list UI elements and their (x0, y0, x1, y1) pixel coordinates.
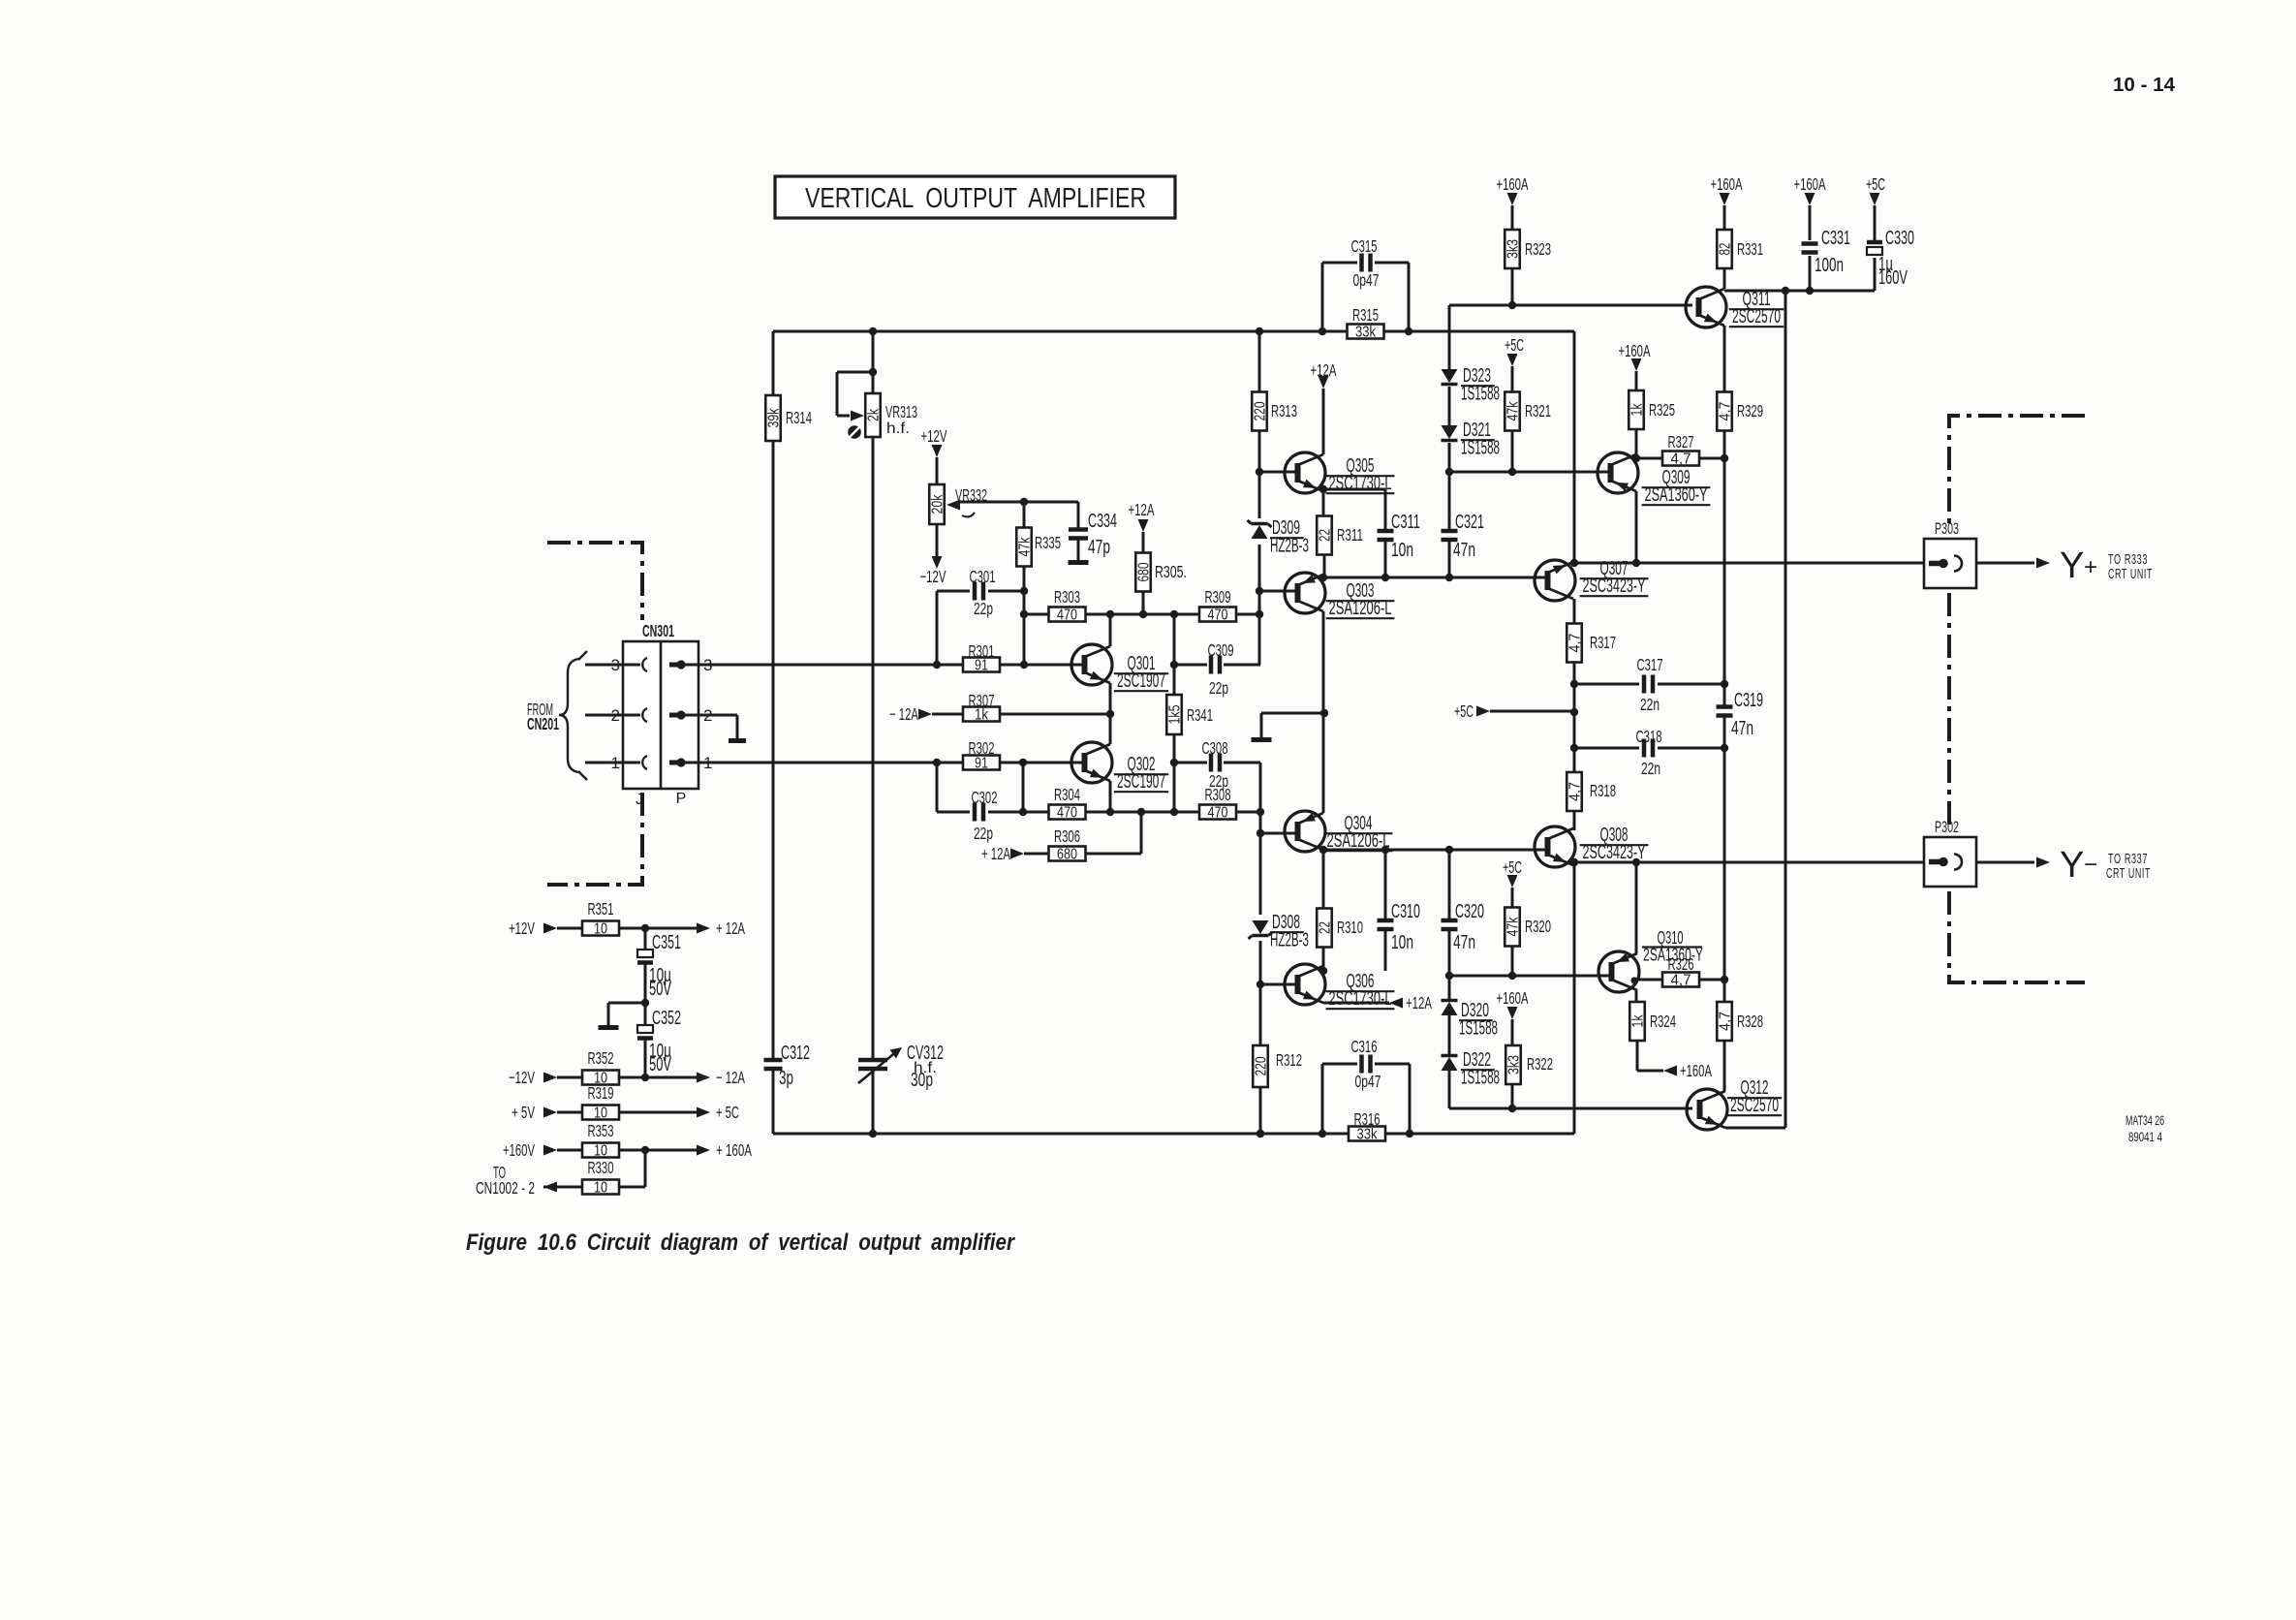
svg-text:2k: 2k (866, 409, 883, 421)
wire R310 to Q306 (1322, 948, 1325, 971)
node R325/R327 (1632, 454, 1640, 462)
wire VR313 column (872, 331, 875, 1134)
node R335/R303 (1020, 610, 1028, 618)
capacitor C315 (1362, 254, 1371, 272)
capacitor C352 (637, 1025, 653, 1039)
CV312 labels (907, 1043, 944, 1091)
node Q301 collector (1106, 610, 1114, 618)
C319 labels (1731, 690, 1763, 739)
wire bottom bus (773, 1133, 1574, 1136)
svg-text:47k: 47k (1505, 917, 1522, 936)
svg-text:+160A: +160A (1711, 174, 1743, 194)
board boundary dash-dot left (547, 543, 642, 885)
Q305 labels (1326, 455, 1395, 494)
transistor Q312 (1687, 1089, 1727, 1130)
node Q306 collector (1319, 967, 1327, 975)
TO R333 CRT UNIT (2108, 551, 2153, 582)
svg-text:2SC3423-Y: 2SC3423-Y (1583, 576, 1646, 597)
wire CN301 pin2 stub left (585, 714, 623, 717)
wire base link Q302 (1022, 763, 1025, 812)
svg-text:680: 680 (1057, 847, 1077, 863)
C316 labels (1351, 1037, 1381, 1091)
svg-text:R324: R324 (1650, 1012, 1676, 1031)
wire C309 line (1174, 664, 1260, 667)
wire Q302 collector lead (1109, 781, 1112, 812)
svg-text:R321: R321 (1525, 401, 1551, 421)
wire C311 branch (1384, 489, 1387, 577)
wire input pin3 line (684, 664, 1085, 667)
capacitor C319 (1717, 707, 1733, 716)
CN301 P plug pin 1 (669, 761, 678, 765)
svg-text:+160A: +160A (1794, 174, 1826, 194)
resistor R302 (963, 738, 1000, 772)
wire feedback column to Y+ (1573, 331, 1576, 563)
svg-text:R312: R312 (1276, 1050, 1302, 1070)
wire input pin1 line (684, 762, 1085, 764)
resistor R351 (582, 899, 619, 938)
wire Q312 emitter to rail (1725, 1127, 1785, 1130)
resistor R315 (1348, 305, 1384, 341)
wire C308 line (1174, 762, 1260, 764)
resistor R304 (1049, 785, 1086, 822)
connector P302 (1924, 837, 1976, 887)
wire R318 to Q308 (1573, 810, 1576, 830)
svg-text:+ 160A: + 160A (716, 1140, 752, 1160)
svg-text:82: 82 (1718, 243, 1734, 256)
svg-text:47n: 47n (1453, 540, 1475, 561)
D309 labels (1270, 517, 1309, 557)
Q304 labels (1324, 813, 1393, 852)
svg-text:R315: R315 (1352, 305, 1379, 325)
resistor R318 (1567, 772, 1616, 811)
C320 labels (1453, 901, 1484, 953)
node top bus / R313 (1256, 327, 1263, 335)
Q306 labels (1326, 971, 1395, 1010)
resistor R303 (1049, 587, 1086, 624)
svg-text:10n: 10n (1391, 540, 1413, 561)
capacitor C334 (1069, 530, 1088, 539)
svg-text:R314: R314 (786, 408, 812, 427)
svg-text:− 12A: − 12A (716, 1068, 745, 1087)
capacitor C330 (1867, 242, 1882, 255)
svg-text:CN1002 - 2: CN1002 - 2 (476, 1178, 535, 1198)
transistor Q311 (1686, 287, 1726, 327)
svg-text:10 - 14: 10 - 14 (2113, 75, 2176, 96)
node R335/C301 (1020, 587, 1028, 595)
wire Q303 line to Q307 base (1323, 576, 1548, 579)
brace from CN201 (559, 659, 578, 772)
svg-text:+160A: +160A (1497, 988, 1529, 1008)
resistor R311 (1317, 516, 1363, 555)
svg-text:R302: R302 (969, 738, 995, 758)
resistor R322 (1505, 1045, 1553, 1084)
svg-text:R335: R335 (1035, 533, 1061, 552)
capacitor C308 (1211, 754, 1220, 772)
svg-text:P303: P303 (1935, 520, 1959, 538)
svg-text:470: 470 (1057, 805, 1077, 822)
node C301 riser / input (933, 661, 941, 669)
svg-text:−12V: −12V (509, 1068, 535, 1087)
svg-text:C351: C351 (652, 932, 681, 953)
resistor R325 (1629, 390, 1675, 429)
transistor Q303 (1285, 573, 1325, 613)
wire R327 line (1636, 457, 1724, 460)
svg-text:CRT UNIT: CRT UNIT (2108, 566, 2153, 582)
wire R324 to +160A (1637, 1041, 1663, 1071)
svg-text:91: 91 (975, 756, 988, 772)
wire +12V to VR332 (936, 457, 939, 484)
Q306 emitter arrow (1303, 991, 1316, 1000)
svg-text:47n: 47n (1731, 718, 1753, 739)
wire R317-R318 column (1573, 662, 1576, 773)
svg-text:R323: R323 (1525, 239, 1551, 259)
CN301 J contact pin 2 (642, 708, 647, 722)
+12A feed at R306 (981, 844, 1024, 863)
wire Q311 base line (1449, 304, 1692, 307)
svg-text:22p: 22p (974, 824, 993, 843)
C309 labels (1208, 640, 1234, 698)
capacitor C351 (637, 950, 653, 963)
+160A tag at R331 (1711, 174, 1743, 205)
resistor R323 (1505, 230, 1551, 268)
wire diode column bottom (1448, 850, 1451, 1108)
wire Q311 emitter to R329 (1723, 326, 1726, 392)
capacitor C301 (975, 582, 983, 601)
svg-text:0p47: 0p47 (1355, 1072, 1381, 1091)
resistor R353 (582, 1121, 619, 1160)
C331 labels (1815, 228, 1850, 276)
svg-text:+12A: +12A (1129, 500, 1155, 519)
wire lower bias column (1259, 763, 1262, 1134)
wire Q303-Q304 link (1322, 611, 1325, 813)
wire Q307 emitter to R317 (1573, 599, 1576, 624)
svg-text:10n: 10n (1391, 932, 1413, 953)
svg-text:2SC1730-L: 2SC1730-L (1329, 988, 1392, 1010)
diode D322 (1442, 1056, 1458, 1072)
node R341/C308 (1170, 759, 1178, 766)
Y- label (2060, 845, 2097, 886)
resistor R321 (1505, 392, 1551, 431)
node Q306 base (1257, 981, 1264, 988)
svg-text:C352: C352 (652, 1008, 681, 1029)
resistor R329 (1717, 392, 1763, 431)
svg-text:R325: R325 (1649, 400, 1675, 420)
Q302 labels (1114, 754, 1168, 793)
ground at CN301 pin2 (729, 738, 746, 743)
node Q305 emitter (1319, 485, 1327, 493)
wire Q312 base line (1449, 1107, 1692, 1110)
svg-text:C321: C321 (1455, 512, 1484, 533)
node Y+ / Q309 emitter (1632, 559, 1640, 567)
node Y- / feedback column (1570, 858, 1578, 866)
node C310 top (1381, 846, 1389, 854)
C312 labels (779, 1043, 810, 1089)
svg-text:3k3: 3k3 (1506, 1055, 1523, 1075)
svg-text:2SC2570: 2SC2570 (1732, 306, 1781, 327)
node Q304 base (1257, 829, 1264, 837)
node R309 right (1256, 610, 1263, 618)
transistor Q307 (1535, 560, 1575, 601)
svg-text:R352: R352 (588, 1048, 614, 1068)
ground at C352 (599, 1025, 619, 1030)
svg-text:R353: R353 (588, 1121, 614, 1140)
R330 arrow out (543, 1182, 557, 1193)
+5C feed mid (1454, 701, 1490, 721)
wire ground branch C35x (608, 1003, 645, 1025)
+5C tag at R320 (1503, 857, 1522, 888)
node R311 bottom (1319, 574, 1327, 581)
svg-text:C319: C319 (1734, 690, 1763, 711)
node C320/R320 line (1445, 972, 1453, 980)
node +160A / R330 (641, 1146, 649, 1154)
svg-text:470: 470 (1208, 805, 1228, 822)
svg-text:P302: P302 (1935, 819, 1959, 836)
svg-text:1S1588: 1S1588 (1461, 384, 1500, 405)
svg-text:+160V: +160V (503, 1140, 535, 1160)
+160A tag at R323 (1497, 174, 1529, 205)
resistor R324 (1629, 1002, 1676, 1041)
C302 labels (972, 788, 998, 843)
wire R311 to line (1323, 554, 1326, 577)
svg-text:R327: R327 (1668, 432, 1694, 452)
node Q302 collector line (1106, 808, 1114, 816)
diode D320 (1442, 1001, 1458, 1016)
wire C334 branch (1077, 502, 1080, 560)
CN301 J contact pin 3 (642, 658, 647, 671)
resistor R310 (1317, 909, 1363, 948)
node R306 riser (1137, 808, 1145, 816)
screwdriver adjust mark (848, 425, 861, 439)
resistor R328 (1717, 1002, 1763, 1041)
svg-text:CN301: CN301 (642, 621, 674, 640)
+12V tag at VR332 (921, 426, 947, 457)
wire CN301 pin3 stub left (585, 664, 623, 667)
node C318 left (1570, 744, 1578, 752)
svg-text:22: 22 (1318, 529, 1334, 542)
node C320 top (1445, 846, 1453, 854)
svg-text:22p: 22p (974, 599, 993, 618)
svg-text:+160A: +160A (1680, 1061, 1712, 1080)
wire +12A to Q305 collector (1322, 389, 1325, 454)
svg-text:680: 680 (1136, 562, 1153, 581)
transistor Q301 (1071, 644, 1112, 685)
svg-text:VERTICAL OUTPUT AMPLIFIER: VERTICAL OUTPUT AMPLIFIER (805, 183, 1146, 214)
svg-text:4,7: 4,7 (1718, 402, 1734, 421)
trimmer CV312 (858, 1060, 887, 1069)
CN301 P plug pin 3 (669, 663, 678, 668)
Y- arrow (2036, 857, 2050, 868)
wire VR332 wiper line (960, 501, 1078, 504)
Y+ arrow (2036, 558, 2050, 569)
D308 labels (1270, 912, 1309, 951)
svg-text:R331: R331 (1737, 239, 1763, 259)
+12A tag at Q305 (1311, 360, 1337, 389)
VR313 wiper arrow (851, 411, 864, 421)
node R335/base Q301 (1020, 661, 1028, 669)
C310 labels (1391, 901, 1420, 953)
svg-text:2SC2570: 2SC2570 (1730, 1095, 1779, 1116)
resistor R326 (1662, 954, 1699, 989)
svg-text:R303: R303 (1054, 587, 1080, 607)
+12A out at Q306 (1389, 993, 1432, 1012)
resistor R306 (1049, 826, 1086, 863)
connector P303 (1924, 539, 1976, 588)
wire R305 column (1142, 532, 1145, 614)
svg-text:+ 5V: + 5V (512, 1103, 535, 1122)
C317 labels (1637, 655, 1663, 714)
node Y+ / feedback column (1570, 559, 1578, 567)
wire Q309 base line (1449, 471, 1611, 474)
resistor R320 (1505, 908, 1551, 947)
node Q305 base (1256, 468, 1263, 476)
svg-text:R351: R351 (588, 899, 614, 919)
Q309 emitter arrow (1616, 483, 1629, 491)
C318 labels (1636, 727, 1662, 778)
svg-text:0p47: 0p47 (1353, 270, 1380, 290)
svg-text:HZ2B-3: HZ2B-3 (1270, 930, 1309, 951)
C311 labels (1391, 512, 1420, 561)
node -12A / C352 (641, 1074, 649, 1081)
wire R330 line (543, 1150, 645, 1187)
svg-text:R307: R307 (969, 691, 995, 710)
Q311 labels (1729, 289, 1784, 327)
svg-text:C302: C302 (972, 788, 998, 807)
svg-text:22n: 22n (1640, 695, 1660, 714)
node bus C316 right (1406, 1130, 1413, 1137)
node emitters/R307 (1106, 710, 1114, 718)
resistor R319 (582, 1083, 619, 1122)
Q312 emitter arrow (1705, 1116, 1718, 1125)
svg-text:C309: C309 (1208, 640, 1234, 660)
resistor R312 (1253, 1045, 1302, 1087)
svg-text:+12A: +12A (1406, 993, 1432, 1012)
node Y- / Q310 emitter (1632, 858, 1640, 866)
connector CN301 body (623, 621, 698, 808)
svg-text:CN201: CN201 (527, 714, 559, 733)
svg-text:J: J (636, 792, 643, 808)
svg-text:2SC1907: 2SC1907 (1117, 670, 1165, 692)
svg-text:Figure 10.6 Circuit diagram of: Figure 10.6 Circuit diagram of vertical … (466, 1230, 1015, 1256)
Q307 emitter arrow (1553, 565, 1566, 574)
wire R314 column (772, 331, 775, 1134)
node rail top (1782, 287, 1789, 295)
wire VR313 wiper tap (837, 372, 873, 416)
wire CN301 pin2 to ground (684, 715, 737, 738)
resistor R301 (963, 641, 1000, 674)
svg-text:R322: R322 (1527, 1054, 1553, 1074)
svg-text:h.f.: h.f. (886, 421, 910, 437)
node R341 top (1170, 610, 1178, 618)
node R341 bottom (1170, 808, 1178, 816)
capacitor C302 (975, 803, 983, 822)
node +12A / C351 (641, 924, 649, 932)
svg-text:3p: 3p (779, 1068, 793, 1089)
node R323 bottom (1508, 301, 1516, 309)
Q302 emitter arrow (1090, 769, 1102, 778)
wire Q309 emitter (1635, 491, 1638, 563)
zener diode D309 (1248, 520, 1272, 539)
svg-text:R330: R330 (588, 1158, 614, 1177)
svg-text:R317: R317 (1590, 633, 1616, 652)
wire R320 column (1511, 888, 1514, 976)
capacitor C311 (1378, 531, 1394, 540)
svg-text:R305.: R305. (1155, 562, 1187, 581)
node C302 riser / input (933, 759, 941, 766)
potentiometer VR313 (865, 393, 917, 437)
svg-text:4,7: 4,7 (1671, 452, 1691, 468)
svg-text:+12V: +12V (509, 919, 535, 938)
node top bus / C315 left (1319, 327, 1326, 335)
wire R335 column (1023, 502, 1026, 665)
wire Q309 collector (1635, 429, 1638, 454)
D323 labels (1461, 365, 1500, 405)
svg-text:+160A: +160A (1497, 174, 1529, 194)
svg-text:R341: R341 (1187, 705, 1213, 725)
svg-text:R301: R301 (969, 641, 995, 661)
svg-text:R319: R319 (588, 1083, 614, 1103)
svg-text:−: − (2084, 852, 2097, 878)
+160A tag at C331 (1794, 174, 1826, 205)
node R321 bottom (1508, 468, 1516, 476)
resistor R352 (582, 1048, 619, 1087)
Q312 labels (1727, 1077, 1782, 1116)
wire Q306 emitter to +12A (1323, 1002, 1389, 1005)
svg-text:−12V: −12V (920, 567, 946, 586)
svg-text:4,7: 4,7 (1567, 782, 1584, 801)
node C331 bottom (1806, 287, 1814, 295)
wire Y- line (1573, 861, 2034, 864)
resistor R317 (1567, 624, 1616, 663)
wire Q305 base (1259, 471, 1298, 474)
svg-text:C315: C315 (1351, 236, 1378, 256)
svg-text:HZ2B-3: HZ2B-3 (1270, 536, 1309, 557)
svg-text:30p: 30p (911, 1070, 933, 1091)
wire Q301 collector lead (1109, 614, 1112, 646)
diode D323 (1442, 369, 1458, 385)
capacitor C316 (1362, 1055, 1371, 1074)
node Q304 emitter line (1319, 846, 1327, 854)
svg-text:22p: 22p (1209, 771, 1228, 791)
svg-text:C334: C334 (1088, 511, 1117, 532)
wire Q310 emitter (1635, 862, 1638, 953)
C315 labels (1351, 236, 1380, 290)
wire C316 loop (1322, 1064, 1410, 1134)
capacitor C310 (1378, 920, 1394, 929)
+5C tag at C330 (1866, 174, 1885, 205)
svg-text:+5C: +5C (1866, 174, 1885, 194)
svg-text:R309: R309 (1205, 587, 1231, 607)
resistor R331 (1717, 230, 1763, 268)
node R312 bottom bus (1257, 1130, 1264, 1137)
wire boost column (1723, 430, 1726, 1002)
Q309 labels (1642, 467, 1711, 506)
wire Q304 base (1260, 832, 1298, 835)
ground below C334 (1069, 560, 1089, 565)
node bus R312 (1257, 1130, 1264, 1137)
resistor R313 (1252, 392, 1297, 431)
svg-text:10: 10 (594, 1180, 607, 1197)
svg-text:R329: R329 (1737, 401, 1763, 421)
svg-text:+5C: +5C (1505, 335, 1524, 355)
capacitor C320 (1442, 920, 1458, 929)
svg-text:160V: 160V (1878, 267, 1908, 289)
svg-text:10: 10 (594, 921, 607, 938)
svg-text:+5C: +5C (1454, 701, 1474, 721)
+160A out at R324 (1663, 1061, 1712, 1080)
svg-text:R328: R328 (1737, 1012, 1763, 1031)
node R327 right (1721, 454, 1728, 462)
C321 labels (1453, 512, 1484, 561)
